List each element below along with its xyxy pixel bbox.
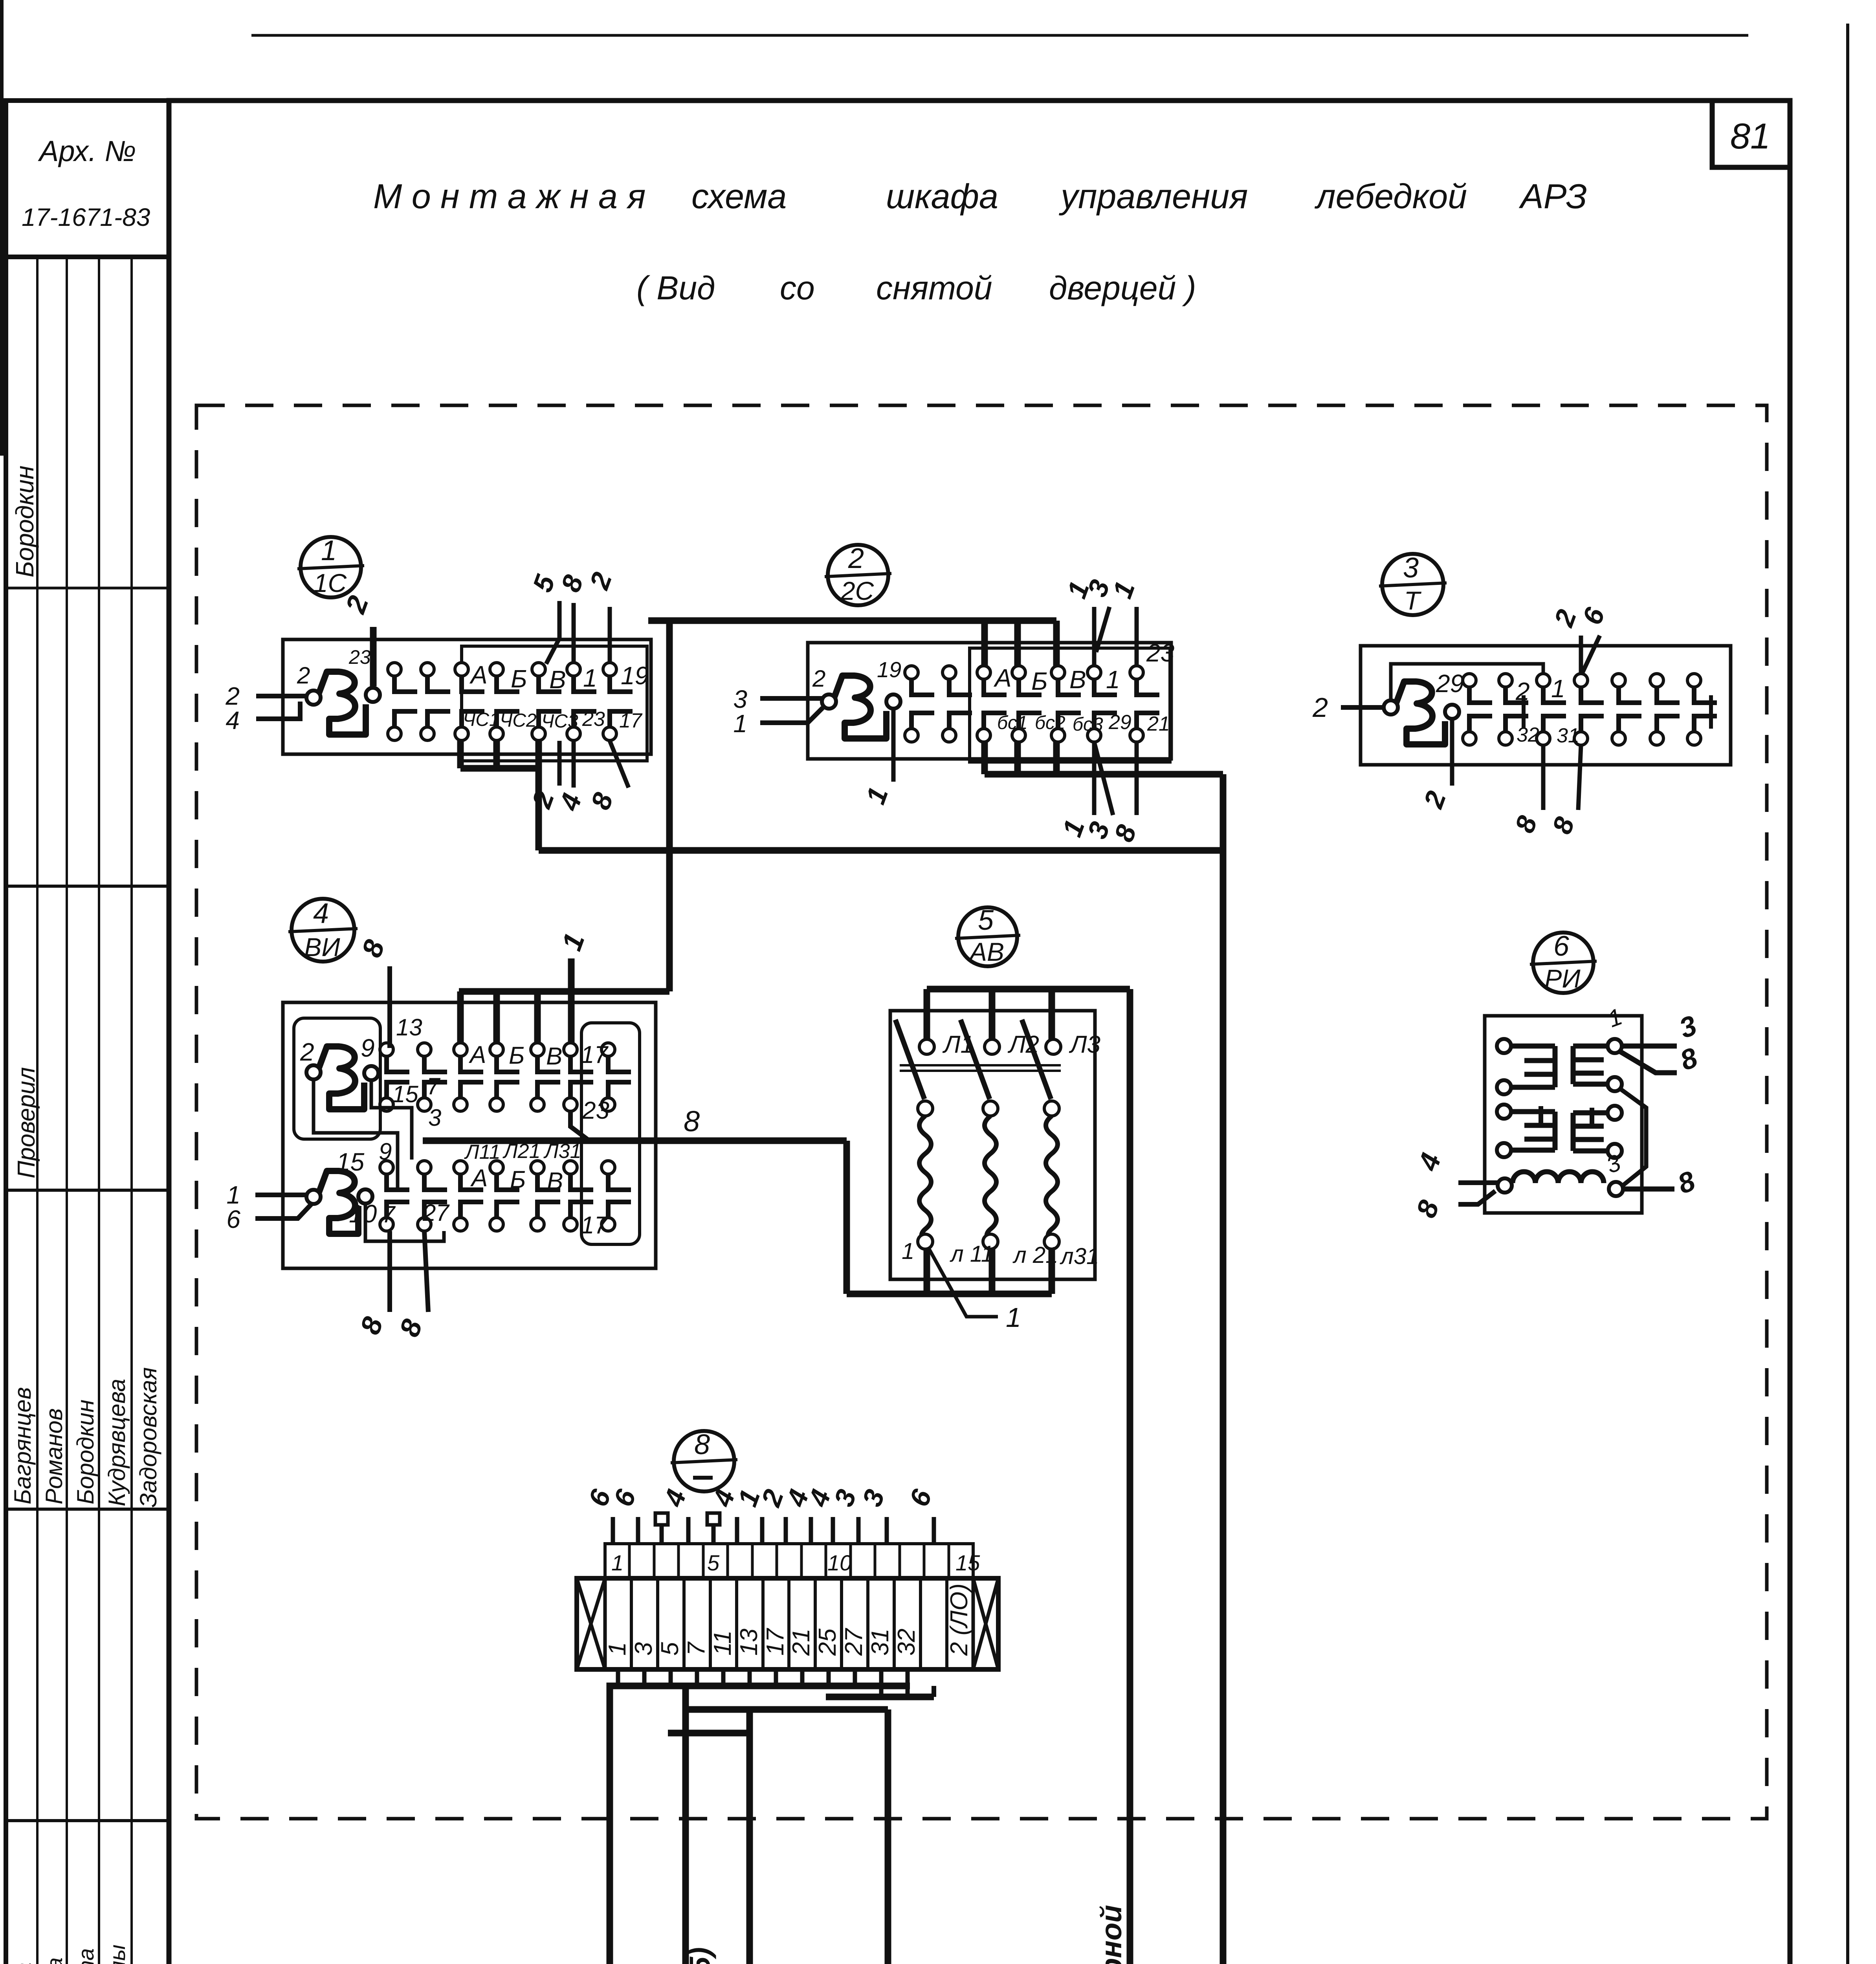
svg-text:Л11: Л11 (464, 1141, 501, 1163)
contactor 1C pole 6 (567, 663, 580, 676)
svg-text:10: 10 (827, 1550, 852, 1575)
svg-text:1: 1 (902, 1238, 914, 1264)
svg-text:ЧС2: ЧС2 (500, 710, 537, 731)
relay RI box (1485, 1016, 1642, 1213)
contactor 1C inner box (462, 646, 647, 761)
svg-text:л 11: л 11 (950, 1241, 994, 1267)
svg-text:ЧС3: ЧС3 (541, 711, 578, 732)
designator circle 6/RI (1533, 933, 1594, 993)
contactor 2C pole 5 (1051, 666, 1065, 679)
svg-text:8: 8 (1676, 1042, 1702, 1077)
2C latching mechanism (822, 694, 836, 709)
svg-text:Руководитель группы: Руководитель группы (105, 1945, 130, 1964)
svg-text:2: 2 (583, 568, 618, 594)
svg-text:2: 2 (848, 543, 864, 574)
svg-text:схема: схема (691, 177, 787, 216)
svg-text:3: 3 (428, 1105, 441, 1131)
svg-text:8: 8 (1674, 1165, 1699, 1200)
BI upper pole 5 (531, 1043, 544, 1056)
designator circle 2/2C (828, 545, 888, 605)
designator circle 3/T (1382, 554, 1443, 615)
AB pole 1 coil (919, 1116, 931, 1238)
BI right inner rounded box (581, 1023, 640, 1244)
BI lower pole 5 (531, 1161, 544, 1174)
AB pole 2 bottom terminal (983, 1234, 998, 1249)
contactor 2C pole 1 (905, 666, 918, 679)
BI top stub 8 (387, 966, 392, 1048)
AB pole 3 mid terminal (1044, 1101, 1059, 1116)
svg-text:А: А (469, 661, 488, 689)
svg-text:Л21: Л21 (502, 1140, 541, 1163)
svg-text:Бородкин: Бородкин (72, 1400, 99, 1504)
BI upper pole 7 (601, 1043, 615, 1056)
svg-text:3: 3 (1403, 552, 1419, 584)
wire 2C bottom U-link (981, 741, 988, 774)
svg-text:Начальник отдела: Начальник отдела (11, 1962, 35, 1964)
BI mechanism 2 (306, 1190, 321, 1204)
block T outer box (1361, 646, 1731, 765)
svg-text:В: В (547, 1168, 563, 1195)
BI lower pole 1 (380, 1161, 393, 1174)
strip stub 6 (932, 1517, 936, 1544)
cable drop brake (885, 1709, 891, 1964)
wire drops into 2C top terminals (981, 621, 988, 668)
svg-text:17: 17 (581, 1212, 609, 1239)
RI left contact group upper (1497, 1039, 1511, 1053)
block T pole 4 (1574, 674, 1588, 687)
RI right loop (1620, 1089, 1646, 1186)
svg-text:31: 31 (1557, 724, 1579, 747)
svg-text:8: 8 (354, 1313, 389, 1338)
svg-text:17: 17 (762, 1628, 789, 1656)
svg-text:А: А (470, 1165, 488, 1192)
svg-text:8: 8 (356, 936, 391, 961)
left table column line (66, 257, 68, 1964)
svg-text:13: 13 (735, 1629, 763, 1656)
svg-text:8: 8 (684, 1105, 700, 1138)
svg-text:1: 1 (1605, 1003, 1626, 1032)
svg-text:2: 2 (300, 1038, 314, 1066)
svg-text:17-1671-83: 17-1671-83 (22, 203, 150, 231)
wire vertical 1C to 4BI (666, 621, 673, 991)
svg-text:ВИ: ВИ (304, 933, 340, 962)
wire 4BI top bus (459, 988, 669, 995)
cable drop switch VO (746, 1733, 753, 1964)
block T pole 7 (1687, 674, 1701, 687)
strip stub 4 (831, 1517, 835, 1544)
svg-text:1: 1 (321, 535, 337, 566)
T internal link line (1391, 664, 1543, 701)
svg-text:Кудрявцева: Кудрявцева (104, 1379, 130, 1506)
1C bottom stubs 2 4 8 (557, 741, 562, 786)
svg-text:5: 5 (707, 1550, 720, 1575)
1C wire 2 top entry (370, 627, 377, 686)
AB pole 2 blade (961, 1020, 990, 1099)
left table row line (6, 1508, 169, 1511)
svg-text:11: 11 (709, 1631, 736, 1656)
svg-text:8: 8 (1546, 813, 1581, 838)
svg-text:17: 17 (619, 709, 643, 732)
AB pole 3 bottom terminal (1044, 1234, 1059, 1249)
left table row line (6, 587, 169, 590)
svg-text:1: 1 (860, 783, 894, 808)
svg-text:В: В (546, 1043, 562, 1070)
block BI outer box (283, 1002, 656, 1268)
2C left entries 3 and 1 (760, 696, 822, 701)
AB pole 1 bottom terminal (918, 1234, 933, 1249)
svg-text:Б: Б (510, 1166, 526, 1193)
svg-text:29: 29 (1436, 669, 1464, 698)
svg-text:32: 32 (893, 1629, 920, 1656)
svg-text:3: 3 (1675, 1009, 1701, 1044)
svg-text:шкафа: шкафа (886, 177, 998, 216)
svg-text:19: 19 (877, 657, 901, 682)
svg-text:л31: л31 (1060, 1244, 1099, 1269)
svg-text:15: 15 (955, 1550, 980, 1575)
BI upper pole 1 (380, 1043, 393, 1056)
left table row line (6, 885, 169, 888)
svg-text:Задоровская: Задоровская (135, 1367, 161, 1508)
svg-text:АВ: АВ (968, 937, 1004, 966)
svg-text:РИ: РИ (1544, 964, 1581, 993)
breaker AB box (890, 1011, 1095, 1279)
svg-text:29: 29 (1108, 711, 1131, 734)
svg-text:Л3: Л3 (1069, 1031, 1100, 1058)
BI lower pole 6 (564, 1161, 577, 1174)
AB pole 1 top terminal (919, 1039, 934, 1054)
AB pole 2 coil (985, 1116, 996, 1238)
svg-text:Б: Б (1031, 667, 1048, 695)
svg-text:9: 9 (361, 1034, 375, 1062)
svg-text:2: 2 (812, 665, 825, 692)
svg-text:1: 1 (611, 1550, 623, 1575)
RI right contact group upper (1608, 1039, 1622, 1053)
RI right wires 3 8 (1622, 1044, 1677, 1049)
svg-text:8: 8 (1108, 821, 1142, 846)
contactor 1C pole 2 (421, 663, 434, 676)
svg-text:ЧС1: ЧС1 (463, 709, 500, 730)
designator circle 4/BI (292, 899, 354, 962)
svg-text:10: 10 (349, 1200, 377, 1228)
svg-text:1: 1 (733, 709, 747, 738)
RI bottom terminals (1498, 1178, 1512, 1193)
svg-text:Проверил: Проверил (13, 1067, 40, 1178)
svg-text:1: 1 (583, 664, 597, 692)
block T pole 6 (1650, 674, 1663, 687)
svg-text:23: 23 (582, 1097, 609, 1124)
wire label-1 drop to 4BI (568, 958, 575, 1044)
collector bus brake (826, 1694, 934, 1700)
2C bottom stubs 1 3 8 (1092, 742, 1097, 815)
contactor 1C pole 4 (490, 663, 503, 676)
block T pole 5 (1612, 674, 1625, 687)
strip end X left (577, 1578, 605, 1669)
2C mech stub 1 (891, 708, 896, 782)
svg-text:Л31: Л31 (543, 1140, 581, 1163)
svg-text:Гл. инженер проекта: Гл. инженер проекта (73, 1948, 98, 1964)
T latching mechanism (1384, 700, 1398, 715)
BI upper pole 2 (418, 1043, 431, 1056)
T left entry 2 (1341, 705, 1384, 710)
svg-text:6: 6 (1577, 603, 1611, 628)
svg-text:2: 2 (297, 662, 310, 689)
svg-text:5: 5 (978, 905, 994, 936)
BI lower pole 3 (454, 1161, 467, 1174)
RI left entries 4 8 (1458, 1180, 1497, 1185)
contactor 1C pole 5 (532, 663, 545, 676)
block T pole 2 (1499, 674, 1512, 687)
BI internal thin maze (314, 1079, 398, 1190)
wire riser to ShchR cable (1127, 989, 1133, 1964)
svg-text:81: 81 (1730, 116, 1770, 156)
svg-text:4: 4 (553, 790, 587, 815)
svg-text:со: со (780, 269, 815, 306)
strip stub 4 (735, 1517, 739, 1544)
svg-text:8: 8 (585, 789, 619, 813)
svg-text:31: 31 (867, 1629, 894, 1656)
contactor 1C pole 1 (388, 663, 401, 676)
svg-text:1: 1 (1107, 577, 1141, 602)
svg-text:1C: 1C (314, 568, 347, 597)
BI lower pole 2 (418, 1161, 431, 1174)
svg-text:1: 1 (1006, 1302, 1021, 1333)
svg-text:А: А (468, 1041, 486, 1068)
BI bottom stubs 8 8 (387, 1231, 392, 1312)
svg-text:л 21: л 21 (1012, 1242, 1058, 1268)
BI left inner rounded box (294, 1018, 380, 1139)
strip end X right (973, 1578, 998, 1669)
svg-text:4: 4 (658, 1486, 692, 1511)
block T pole 3 (1537, 674, 1550, 687)
svg-text:21: 21 (1147, 713, 1170, 735)
svg-text:Л2: Л2 (1007, 1031, 1039, 1058)
svg-text:13: 13 (396, 1014, 422, 1041)
svg-text:1: 1 (1106, 665, 1120, 694)
AB pole 3 top terminal (1046, 1039, 1061, 1054)
svg-text:снятой: снятой (876, 269, 992, 306)
svg-text:Т: Т (1404, 586, 1422, 615)
svg-text:32: 32 (1517, 724, 1539, 746)
BI upper pole 6 (564, 1043, 577, 1056)
strip stub 4 (809, 1517, 813, 1544)
svg-text:8: 8 (555, 571, 589, 596)
strip stub 1 (760, 1517, 765, 1544)
svg-text:дверцей ): дверцей ) (1049, 269, 1196, 306)
designator circle 8/- (674, 1431, 734, 1491)
svg-text:М о н т а ж н а я: М о н т а ж н а я (373, 177, 646, 216)
svg-text:бс2: бс2 (1035, 713, 1065, 733)
svg-text:2C: 2C (840, 576, 875, 605)
left table row line (6, 1189, 169, 1192)
contactor 2C pole 7 (1130, 666, 1143, 679)
svg-text:2: 2 (1312, 692, 1328, 723)
svg-text:19: 19 (621, 661, 649, 690)
svg-text:6: 6 (226, 1205, 240, 1233)
arch number box (6, 101, 169, 257)
left table column line (98, 257, 100, 1964)
svg-text:7: 7 (382, 1201, 396, 1227)
1C left entries 2 and 4 (256, 694, 306, 698)
AB trip bar (900, 1064, 1061, 1066)
svg-text:Л1: Л1 (942, 1031, 974, 1058)
svg-text:В: В (1069, 665, 1086, 694)
1C top stubs 5 8 2 (546, 601, 559, 664)
wire top bus from 1C to 2C (648, 617, 1056, 624)
BI upper pole 4 (490, 1043, 503, 1056)
contactor 2C inner box (970, 648, 1170, 762)
2C top stubs 1 3 1 (1092, 607, 1097, 666)
svg-text:6: 6 (608, 1485, 642, 1510)
AB pole 3 coil (1046, 1116, 1058, 1238)
svg-text:Багрянцев: Багрянцев (9, 1387, 36, 1504)
AB leader line 1 (929, 1249, 998, 1317)
svg-text:3: 3 (630, 1642, 657, 1656)
strip stub capped (660, 1524, 664, 1544)
collector bus 2 (686, 1686, 888, 1709)
svg-text:2: 2 (339, 592, 375, 618)
sheet number box 81 (1712, 101, 1790, 167)
strip stub 4 (686, 1517, 691, 1544)
BI upper pole 3 (454, 1043, 467, 1056)
svg-text:2: 2 (1515, 677, 1530, 705)
svg-text:Романов: Романов (41, 1408, 67, 1504)
strip under-bundle stubs (616, 1669, 620, 1686)
scan edge sliver (0, 0, 4, 456)
AB pole 2 top terminal (985, 1039, 999, 1054)
contactor 2C pole 3 (977, 666, 990, 679)
contactor 2C pole 2 (943, 666, 956, 679)
RI right contact group lower (1608, 1106, 1622, 1120)
wire AB top bus (927, 986, 1130, 993)
T top stubs 2 6 (1579, 636, 1583, 674)
collector bus 1 (610, 1686, 910, 1964)
svg-text:5: 5 (657, 1642, 684, 1656)
left stamp table outer (6, 101, 169, 1964)
svg-text:лебедкой: лебедкой (1314, 177, 1467, 216)
block T pole 1 (1463, 674, 1476, 687)
svg-text:1: 1 (604, 1642, 631, 1656)
designator circle 1/1C (301, 537, 361, 597)
strip stub capped (712, 1524, 716, 1544)
svg-text:АРЗ: АРЗ (1518, 177, 1587, 216)
svg-text:25: 25 (814, 1629, 841, 1656)
svg-text:1: 1 (556, 929, 591, 955)
svg-text:27: 27 (422, 1200, 450, 1226)
svg-text:23: 23 (348, 646, 371, 668)
contactor 1C pole 7 (603, 663, 616, 676)
svg-text:3: 3 (856, 1486, 891, 1510)
svg-text:7: 7 (683, 1641, 710, 1656)
svg-text:15: 15 (336, 1148, 365, 1176)
strip stub 2 (784, 1517, 788, 1544)
svg-text:2 (ЛО): 2 (ЛО) (946, 1583, 973, 1656)
svg-text:1: 1 (1551, 674, 1565, 703)
svg-text:17: 17 (581, 1041, 609, 1068)
sheet top edge line (251, 34, 1748, 37)
svg-text:( Вид: ( Вид (636, 269, 715, 306)
svg-text:бс3: бс3 (1073, 714, 1103, 735)
AB pole 3 blade (1022, 1020, 1051, 1099)
svg-text:8: 8 (1509, 812, 1543, 837)
svg-text:Б: Б (511, 665, 527, 693)
strip top cell row (605, 1544, 973, 1578)
cable drop kinoprojection (682, 1709, 689, 1964)
svg-text:4: 4 (313, 898, 329, 929)
T extra cross bars (1522, 695, 1526, 729)
BI exit wire 8 step (570, 1111, 589, 1141)
contactor 1C outer box (283, 639, 651, 754)
svg-text:4: 4 (1412, 1149, 1447, 1175)
svg-text:21: 21 (788, 1629, 815, 1656)
strip stub 3 (885, 1517, 889, 1544)
BI lower pole 7 (601, 1161, 615, 1174)
svg-text:8: 8 (1410, 1196, 1445, 1222)
svg-text:бс1: бс1 (997, 713, 1028, 733)
svg-text:от Щ.Р. в регуляторной: от Щ.Р. в регуляторной (1095, 1905, 1128, 1964)
svg-text:4: 4 (226, 706, 240, 735)
svg-text:Бородкин: Бородкин (11, 465, 39, 577)
contactor 2C pole 4 (1012, 666, 1025, 679)
RI left contact group lower (1497, 1105, 1511, 1119)
svg-text:6: 6 (904, 1485, 938, 1510)
cabinet dashed outline (196, 405, 1767, 1819)
AB pole 1 blade (895, 1020, 924, 1099)
strip stub 3 (856, 1517, 861, 1544)
svg-text:6: 6 (1553, 931, 1570, 962)
svg-text:8: 8 (694, 1429, 710, 1460)
wire 8 from 4BI to AB bottom (423, 1138, 847, 1144)
strip stub 6 (611, 1517, 615, 1544)
svg-text:9: 9 (379, 1138, 392, 1165)
svg-text:23: 23 (1146, 639, 1175, 667)
svg-text:А: А (993, 664, 1012, 692)
svg-text:Арх. №: Арх. № (38, 135, 136, 167)
1C latching mechanism (306, 691, 321, 705)
strip main body (577, 1578, 998, 1669)
svg-text:В: В (549, 665, 566, 694)
left table row line (6, 1819, 169, 1822)
wire horizontal bus to motor riser (539, 847, 1223, 854)
collector bus 3 (668, 1709, 750, 1733)
svg-text:2: 2 (1418, 787, 1452, 813)
wire riser to Dvigatel cable (1220, 774, 1227, 1964)
svg-text:управления: управления (1059, 177, 1248, 216)
contactor 2C outer box (808, 643, 1171, 759)
svg-text:7: 7 (427, 1073, 441, 1099)
BI mechanism 1 (306, 1065, 321, 1079)
svg-text:27: 27 (840, 1628, 867, 1656)
BI left entries 1 and 6 (255, 1193, 306, 1197)
BI lower pole 4 (490, 1161, 503, 1174)
svg-text:15: 15 (392, 1081, 418, 1107)
AB pole 2 mid terminal (983, 1101, 998, 1116)
svg-text:23: 23 (582, 708, 605, 731)
contactor 2C pole 6 (1087, 666, 1101, 679)
svg-text:Б: Б (509, 1042, 524, 1069)
designator circle 5/AB (958, 907, 1017, 966)
svg-text:8: 8 (394, 1315, 429, 1341)
left table column line (36, 257, 39, 1964)
sheet right edge line (1846, 24, 1849, 1964)
svg-text:Гл. инженер отдела: Гл. инженер отдела (42, 1957, 67, 1964)
T bottom stubs 2 8 8 (1450, 718, 1454, 786)
1C bottom U link (457, 741, 464, 768)
RI coil (1513, 1172, 1604, 1183)
svg-text:4 ( 1 х 1.5): 4 ( 1 х 1.5) (684, 1947, 716, 1964)
AB pole 1 mid terminal (918, 1101, 933, 1116)
strip stub 6 (636, 1517, 640, 1544)
contactor 1C pole 3 (455, 663, 468, 676)
